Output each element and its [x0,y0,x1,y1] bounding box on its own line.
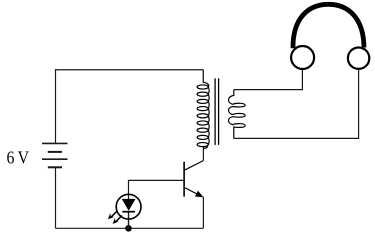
LED D1 emission arrow 2 [113,216,122,224]
LED D1 [116,194,141,219]
headphones headband [293,4,364,48]
wire emitter to bottom rail [202,197,204,229]
svg-text:6 V: 6 V [7,148,30,168]
junction node: LED cathode to bottom rail [125,225,132,232]
wire collector to primary winding [202,146,204,161]
transistor Q1 [184,161,204,198]
headphones left earpiece [291,46,314,69]
battery B1 [42,143,68,167]
wire battery positive via top rail to primary winding [56,70,204,144]
transformer T1 core [215,78,219,145]
wire secondary bottom to right earphone [234,69,359,139]
wire left rail lower [55,167,57,228]
wire LED cathode lead [128,212,130,228]
headphones right earpiece [348,48,369,69]
wire bottom rail [56,227,204,229]
LED D1 emission arrow 1 [108,211,117,219]
wire secondary top to left earphone [234,69,303,90]
wire LED anode to base node [129,180,184,199]
transformer T1 secondary winding [229,90,246,139]
transformer T1 primary winding [197,70,209,148]
